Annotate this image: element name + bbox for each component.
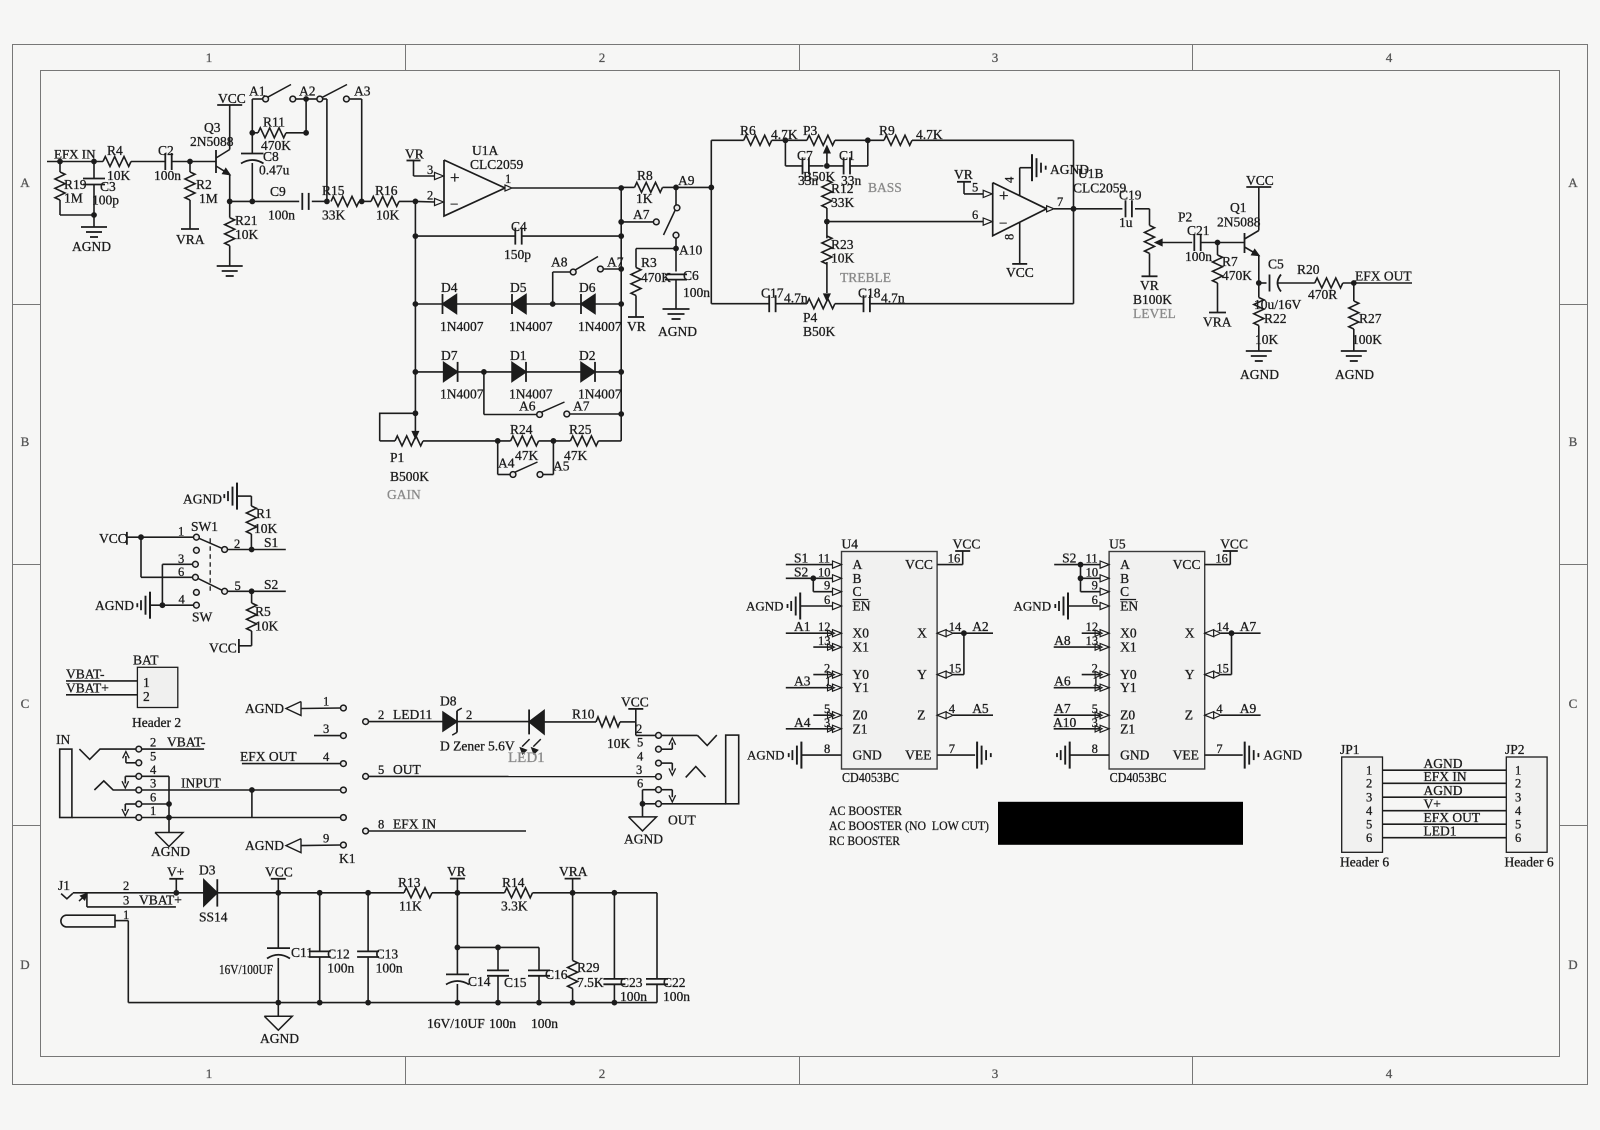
svg-text:RC BOOSTER: RC BOOSTER: [829, 834, 900, 848]
svg-text:X: X: [1185, 626, 1195, 641]
svg-text:16V/100UF: 16V/100UF: [219, 962, 273, 977]
svg-text:K1: K1: [339, 851, 356, 866]
svg-text:−: −: [450, 197, 458, 213]
svg-text:C1: C1: [839, 148, 855, 163]
svg-text:AGND: AGND: [747, 748, 785, 763]
svg-text:1: 1: [1366, 764, 1372, 778]
svg-text:2N5088: 2N5088: [1217, 215, 1261, 230]
svg-text:D6: D6: [579, 280, 596, 295]
svg-text:12: 12: [1086, 620, 1099, 634]
svg-text:GAIN: GAIN: [387, 487, 421, 502]
svg-text:4: 4: [150, 763, 157, 777]
svg-text:B100K: B100K: [1133, 292, 1172, 307]
svg-text:1K: 1K: [636, 191, 653, 206]
svg-text:1: 1: [1093, 675, 1099, 689]
svg-text:R25: R25: [569, 422, 592, 437]
svg-text:2: 2: [1366, 777, 1372, 791]
svg-text:Q3: Q3: [204, 120, 221, 135]
svg-text:4: 4: [1003, 176, 1017, 183]
svg-text:EFX IN: EFX IN: [54, 147, 96, 162]
svg-text:1: 1: [178, 525, 184, 539]
svg-text:EFX OUT: EFX OUT: [240, 749, 297, 764]
svg-text:150p: 150p: [504, 247, 531, 262]
svg-text:C21: C21: [1187, 223, 1210, 238]
svg-text:4: 4: [1515, 804, 1522, 818]
svg-text:S2: S2: [1062, 551, 1076, 566]
svg-text:3: 3: [178, 552, 184, 566]
svg-text:R1: R1: [256, 506, 272, 521]
svg-text:1u: 1u: [1119, 215, 1133, 230]
svg-text:Z: Z: [1185, 708, 1193, 723]
svg-text:Y: Y: [917, 667, 927, 682]
svg-text:D8: D8: [440, 694, 457, 709]
svg-text:OUT: OUT: [668, 813, 696, 828]
svg-text:A1: A1: [249, 84, 266, 99]
svg-text:470K: 470K: [641, 270, 671, 285]
svg-text:R16: R16: [375, 183, 398, 198]
svg-text:4: 4: [1386, 1066, 1393, 1081]
svg-text:R5: R5: [255, 604, 271, 619]
svg-text:6: 6: [1515, 831, 1521, 845]
svg-text:U1B: U1B: [1078, 166, 1104, 181]
svg-text:B500K: B500K: [390, 469, 429, 484]
svg-text:1M: 1M: [199, 191, 218, 206]
svg-text:R24: R24: [510, 422, 533, 437]
svg-text:3: 3: [150, 777, 156, 791]
svg-text:C7: C7: [797, 148, 813, 163]
svg-text:100n: 100n: [683, 285, 710, 300]
svg-text:33K: 33K: [831, 195, 855, 210]
svg-text:A1: A1: [794, 619, 811, 634]
svg-text:VCC: VCC: [1006, 265, 1034, 280]
svg-text:R22: R22: [1264, 311, 1287, 326]
svg-text:VCC: VCC: [1246, 173, 1274, 188]
svg-text:100K: 100K: [1352, 332, 1382, 347]
svg-text:VBAT+: VBAT+: [139, 893, 182, 908]
svg-text:GND: GND: [1120, 748, 1149, 763]
svg-text:EFX IN: EFX IN: [1424, 769, 1467, 784]
svg-text:LED1: LED1: [1424, 824, 1457, 839]
svg-text:16: 16: [948, 552, 961, 566]
svg-text:6: 6: [1092, 593, 1098, 607]
svg-text:14: 14: [1216, 620, 1229, 634]
svg-text:1: 1: [206, 1066, 213, 1081]
svg-text:10K: 10K: [107, 168, 131, 183]
svg-text:16V/10UF: 16V/10UF: [427, 1016, 485, 1031]
svg-text:5: 5: [150, 750, 156, 764]
svg-text:1: 1: [825, 675, 831, 689]
svg-text:2: 2: [427, 189, 433, 203]
svg-text:R2: R2: [196, 177, 212, 192]
svg-text:C13: C13: [376, 947, 399, 962]
svg-text:C9: C9: [270, 184, 286, 199]
svg-text:4: 4: [1366, 804, 1373, 818]
svg-text:7: 7: [1216, 742, 1222, 756]
svg-text:6: 6: [824, 593, 830, 607]
svg-text:A8: A8: [551, 255, 568, 270]
svg-text:R14: R14: [502, 875, 525, 890]
svg-text:AC BOOSTER: AC BOOSTER: [829, 804, 902, 818]
svg-text:C22: C22: [663, 975, 686, 990]
svg-text:−: −: [999, 216, 1007, 232]
svg-text:1: 1: [323, 695, 329, 709]
svg-text:GND: GND: [853, 748, 882, 763]
svg-text:8: 8: [378, 818, 384, 832]
svg-text:AGND: AGND: [1263, 748, 1302, 763]
svg-text:2: 2: [636, 722, 642, 736]
svg-text:VEE: VEE: [905, 748, 931, 763]
svg-text:14: 14: [949, 620, 962, 634]
svg-text:10K: 10K: [1255, 332, 1279, 347]
svg-text:5: 5: [1366, 818, 1372, 832]
svg-text:Header 6: Header 6: [1505, 855, 1554, 870]
svg-text:3: 3: [992, 50, 999, 65]
svg-text:A9: A9: [1240, 701, 1257, 716]
svg-text:A7: A7: [573, 399, 590, 414]
svg-text:2N5088: 2N5088: [190, 134, 234, 149]
svg-text:LEVEL: LEVEL: [1133, 306, 1176, 321]
svg-text:EFX IN: EFX IN: [393, 817, 436, 832]
svg-text:R6: R6: [740, 123, 756, 138]
svg-text:R4: R4: [107, 143, 123, 158]
svg-text:6: 6: [150, 791, 156, 805]
svg-text:AGND: AGND: [624, 832, 663, 847]
svg-text:VBAT-: VBAT-: [167, 735, 206, 750]
svg-text:P4: P4: [803, 310, 818, 325]
svg-text:R10: R10: [572, 707, 595, 722]
svg-text:R13: R13: [398, 875, 421, 890]
svg-text:C16: C16: [545, 967, 568, 982]
svg-text:2: 2: [143, 689, 150, 704]
svg-text:A2: A2: [299, 84, 316, 99]
svg-text:5: 5: [972, 181, 978, 195]
svg-text:Y: Y: [1185, 667, 1195, 682]
svg-text:C17: C17: [761, 286, 784, 301]
svg-text:4: 4: [949, 702, 956, 716]
svg-text:U5: U5: [1109, 537, 1126, 552]
svg-text:7: 7: [949, 742, 955, 756]
svg-text:11K: 11K: [399, 899, 422, 914]
svg-text:A5: A5: [972, 701, 989, 716]
svg-text:C23: C23: [620, 975, 643, 990]
svg-text:100n: 100n: [663, 989, 690, 1004]
svg-text:R21: R21: [235, 213, 258, 228]
svg-text:SS14: SS14: [199, 910, 228, 925]
svg-text:470K: 470K: [261, 138, 291, 153]
svg-text:C19: C19: [1119, 188, 1142, 203]
svg-text:AGND: AGND: [72, 239, 111, 254]
svg-text:D5: D5: [510, 280, 527, 295]
svg-text:SW1: SW1: [191, 519, 218, 534]
svg-text:10K: 10K: [607, 736, 631, 751]
svg-text:4.7n: 4.7n: [784, 291, 808, 306]
svg-text:EN: EN: [853, 599, 871, 614]
svg-text:R15: R15: [322, 183, 345, 198]
svg-text:S2: S2: [794, 564, 808, 579]
svg-text:10K: 10K: [376, 208, 400, 223]
svg-text:7: 7: [1057, 195, 1063, 209]
svg-text:A: A: [1568, 175, 1578, 190]
svg-text:12: 12: [818, 620, 831, 634]
svg-text:10K: 10K: [831, 251, 855, 266]
svg-text:100n: 100n: [327, 961, 354, 976]
svg-text:VCC: VCC: [218, 91, 246, 106]
svg-text:CLC2059: CLC2059: [470, 157, 524, 172]
svg-text:100p: 100p: [92, 193, 119, 208]
svg-text:R29: R29: [577, 960, 600, 975]
svg-text:BASS: BASS: [868, 180, 902, 195]
svg-text:AGND: AGND: [1240, 367, 1279, 382]
svg-text:SW: SW: [192, 610, 213, 625]
svg-text:470K: 470K: [1222, 268, 1252, 283]
svg-text:TREBLE: TREBLE: [840, 270, 891, 285]
svg-text:2: 2: [150, 736, 156, 750]
svg-text:AGND: AGND: [151, 844, 190, 859]
svg-text:7.5K: 7.5K: [577, 975, 604, 990]
svg-text:S1: S1: [264, 535, 278, 550]
svg-text:VCC: VCC: [1220, 537, 1248, 552]
svg-text:C: C: [853, 584, 862, 599]
svg-text:9: 9: [1092, 579, 1098, 593]
svg-text:2: 2: [466, 708, 472, 722]
svg-text:A10: A10: [679, 243, 702, 258]
svg-text:100n: 100n: [154, 168, 181, 183]
svg-text:13: 13: [1086, 634, 1099, 648]
svg-text:P3: P3: [803, 123, 818, 138]
svg-text:X1: X1: [853, 640, 870, 655]
svg-text:33K: 33K: [322, 208, 346, 223]
svg-text:D4: D4: [441, 280, 458, 295]
svg-text:13: 13: [818, 634, 831, 648]
svg-text:C4: C4: [511, 219, 527, 234]
svg-text:A4: A4: [498, 456, 515, 471]
svg-text:3.3K: 3.3K: [501, 899, 528, 914]
svg-text:X0: X0: [853, 626, 870, 641]
svg-text:VRA: VRA: [1203, 315, 1232, 330]
svg-text:1: 1: [505, 172, 511, 186]
svg-text:A3: A3: [794, 674, 811, 689]
svg-text:CD4053BC: CD4053BC: [842, 770, 899, 785]
svg-text:VBAT-: VBAT-: [66, 667, 105, 682]
svg-text:100n: 100n: [620, 989, 647, 1004]
svg-text:VEE: VEE: [1173, 748, 1199, 763]
svg-text:AGND: AGND: [245, 838, 284, 853]
svg-text:VRA: VRA: [176, 232, 205, 247]
svg-text:4: 4: [323, 750, 330, 764]
svg-text:470R: 470R: [1308, 287, 1337, 302]
svg-text:6: 6: [1366, 831, 1372, 845]
svg-text:AC BOOSTER (NO LOW CUT): AC BOOSTER (NO LOW CUT): [829, 819, 989, 833]
svg-text:5: 5: [1092, 702, 1098, 716]
svg-text:D Zener 5.6V: D Zener 5.6V: [440, 739, 515, 754]
svg-text:VCC: VCC: [99, 531, 127, 546]
svg-text:Header 2: Header 2: [132, 715, 181, 730]
svg-text:A9: A9: [678, 173, 695, 188]
svg-text:A7: A7: [607, 255, 624, 270]
svg-text:3: 3: [1366, 791, 1372, 805]
svg-text:A: A: [20, 175, 30, 190]
svg-text:4.7K: 4.7K: [771, 127, 798, 142]
svg-text:10K: 10K: [235, 227, 259, 242]
svg-text:C2: C2: [158, 143, 174, 158]
svg-text:AGND: AGND: [746, 599, 784, 614]
svg-text:4: 4: [1216, 702, 1223, 716]
svg-text:5: 5: [378, 763, 384, 777]
svg-text:Z1: Z1: [853, 721, 868, 736]
svg-text:2: 2: [599, 1066, 606, 1081]
svg-text:Header 6: Header 6: [1340, 855, 1389, 870]
svg-text:3: 3: [1515, 791, 1521, 805]
svg-text:VR: VR: [1140, 278, 1159, 293]
svg-text:100n: 100n: [268, 208, 295, 223]
svg-text:AGND: AGND: [183, 492, 222, 507]
svg-text:4.7n: 4.7n: [881, 291, 905, 306]
svg-text:AGND: AGND: [245, 701, 284, 716]
svg-text:VCC: VCC: [265, 865, 293, 880]
svg-text:R7: R7: [1222, 254, 1238, 269]
svg-text:VR: VR: [954, 167, 973, 182]
svg-text:A2: A2: [972, 619, 989, 634]
svg-text:P1: P1: [390, 450, 404, 465]
svg-text:R20: R20: [1297, 262, 1320, 277]
svg-text:R27: R27: [1359, 311, 1382, 326]
svg-text:D3: D3: [199, 863, 216, 878]
svg-text:LED11: LED11: [393, 707, 432, 722]
svg-text:4.7K: 4.7K: [916, 127, 943, 142]
svg-text:B: B: [1569, 434, 1578, 449]
svg-text:B50K: B50K: [803, 324, 836, 339]
svg-text:A4: A4: [794, 715, 811, 730]
svg-text:6: 6: [178, 565, 184, 579]
svg-text:10: 10: [818, 565, 831, 579]
svg-text:6: 6: [972, 208, 978, 222]
svg-text:10: 10: [1086, 565, 1099, 579]
svg-text:U4: U4: [842, 537, 859, 552]
svg-text:D: D: [1568, 957, 1577, 972]
svg-text:U1A: U1A: [472, 143, 498, 158]
svg-text:2: 2: [1515, 777, 1521, 791]
svg-text:D: D: [20, 957, 29, 972]
svg-text:VCC: VCC: [209, 641, 237, 656]
svg-text:3: 3: [824, 716, 830, 730]
svg-text:VR: VR: [447, 864, 466, 879]
svg-text:100n: 100n: [376, 961, 403, 976]
svg-text:C15: C15: [504, 975, 527, 990]
svg-text:VCC: VCC: [621, 695, 649, 710]
svg-text:Q1: Q1: [1230, 200, 1247, 215]
svg-text:1N4007: 1N4007: [509, 319, 553, 334]
svg-text:V+: V+: [167, 865, 184, 880]
svg-text:C: C: [21, 696, 30, 711]
svg-text:3: 3: [636, 763, 642, 777]
svg-text:R11: R11: [263, 115, 285, 130]
svg-text:J1: J1: [58, 878, 70, 893]
svg-text:S2: S2: [264, 577, 278, 592]
svg-text:R8: R8: [637, 168, 653, 183]
svg-text:4: 4: [1386, 50, 1393, 65]
svg-text:X: X: [917, 626, 927, 641]
svg-text:AGND: AGND: [260, 1031, 299, 1046]
svg-text:Z1: Z1: [1120, 721, 1135, 736]
svg-text:A8: A8: [1054, 633, 1071, 648]
svg-text:R9: R9: [879, 123, 895, 138]
svg-text:1: 1: [150, 804, 156, 818]
svg-text:1N4007: 1N4007: [440, 387, 484, 402]
svg-text:8: 8: [1003, 234, 1017, 240]
svg-text:AGND: AGND: [1335, 367, 1374, 382]
svg-text:3: 3: [123, 894, 129, 908]
svg-text:100n: 100n: [1185, 249, 1212, 264]
svg-text:2: 2: [1092, 662, 1098, 676]
svg-text:10K: 10K: [255, 619, 279, 634]
svg-text:0.47u: 0.47u: [259, 163, 290, 178]
svg-text:LED1: LED1: [508, 750, 545, 766]
svg-text:8: 8: [824, 742, 830, 756]
svg-text:10K: 10K: [254, 521, 278, 536]
svg-text:VBAT+: VBAT+: [66, 681, 109, 696]
svg-text:3: 3: [323, 722, 329, 736]
svg-text:Y1: Y1: [853, 680, 870, 695]
svg-text:AGND: AGND: [1014, 599, 1052, 614]
svg-text:9: 9: [323, 832, 329, 846]
svg-text:IN: IN: [56, 732, 70, 747]
svg-text:15: 15: [1216, 662, 1229, 676]
svg-text:5: 5: [824, 702, 830, 716]
svg-text:A10: A10: [1053, 715, 1076, 730]
svg-text:C: C: [1569, 696, 1578, 711]
svg-text:1N4007: 1N4007: [440, 319, 484, 334]
svg-text:VR: VR: [405, 147, 424, 162]
svg-text:VR: VR: [627, 319, 646, 334]
svg-text:C12: C12: [327, 947, 350, 962]
svg-text:2: 2: [123, 879, 129, 893]
svg-text:C18: C18: [858, 286, 881, 301]
svg-text:X0: X0: [1120, 626, 1137, 641]
svg-text:Y1: Y1: [1120, 680, 1137, 695]
svg-text:4: 4: [179, 593, 186, 607]
svg-text:A5: A5: [553, 459, 570, 474]
svg-text:1M: 1M: [64, 191, 83, 206]
svg-text:D7: D7: [441, 348, 458, 363]
svg-text:1: 1: [143, 675, 150, 690]
svg-text:EFX OUT: EFX OUT: [1355, 269, 1412, 284]
svg-text:8: 8: [1092, 742, 1098, 756]
svg-text:+: +: [450, 168, 460, 187]
svg-text:C6: C6: [683, 268, 699, 283]
svg-text:OUT: OUT: [393, 762, 421, 777]
svg-text:5: 5: [1515, 818, 1521, 832]
svg-text:B: B: [21, 434, 30, 449]
svg-text:1: 1: [1515, 764, 1521, 778]
svg-text:JP1: JP1: [1340, 742, 1360, 757]
svg-text:47K: 47K: [515, 448, 539, 463]
svg-text:C: C: [1120, 584, 1129, 599]
svg-text:6: 6: [637, 777, 643, 791]
svg-text:A7: A7: [633, 207, 650, 222]
svg-text:9: 9: [824, 579, 830, 593]
svg-text:EN: EN: [1120, 599, 1138, 614]
svg-text:16: 16: [1215, 552, 1228, 566]
svg-text:Z: Z: [917, 708, 925, 723]
svg-text:A3: A3: [354, 84, 371, 99]
svg-text:A6: A6: [519, 399, 536, 414]
svg-text:D1: D1: [510, 348, 527, 363]
svg-text:R3: R3: [641, 255, 657, 270]
svg-text:VCC: VCC: [1173, 557, 1201, 572]
svg-text:3: 3: [992, 1066, 999, 1081]
svg-text:1: 1: [206, 50, 213, 65]
svg-text:1: 1: [123, 908, 129, 922]
